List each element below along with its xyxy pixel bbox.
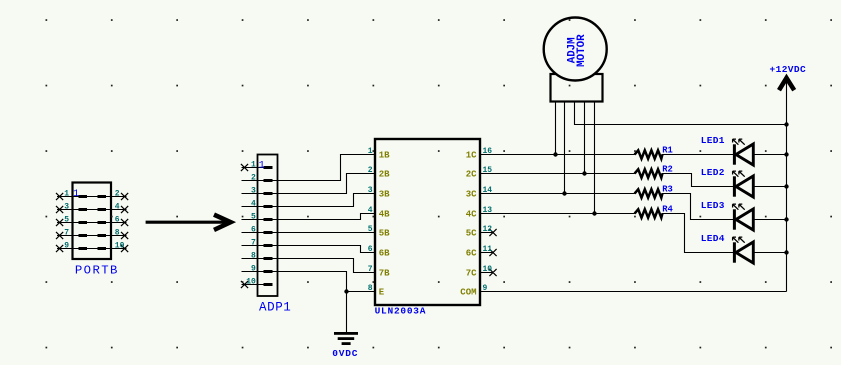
svg-text:1: 1 [259, 159, 265, 171]
svg-text:R4: R4 [662, 205, 673, 215]
svg-text:16: 16 [483, 147, 493, 156]
svg-text:4B: 4B [379, 210, 390, 220]
svg-text:7: 7 [368, 265, 373, 274]
svg-text:4: 4 [115, 202, 120, 211]
svg-text:0VDC: 0VDC [332, 348, 358, 359]
svg-text:3: 3 [64, 202, 69, 211]
svg-text:5C: 5C [466, 229, 477, 239]
svg-text:COM: COM [460, 288, 476, 298]
svg-text:2: 2 [251, 174, 256, 183]
svg-text:LED3: LED3 [701, 200, 725, 211]
svg-text:14: 14 [483, 186, 493, 195]
svg-text:13: 13 [483, 206, 493, 215]
svg-text:3C: 3C [466, 190, 477, 200]
svg-text:9: 9 [483, 284, 488, 293]
svg-text:4: 4 [251, 200, 256, 209]
svg-text:3: 3 [251, 187, 256, 196]
svg-text:ADP1: ADP1 [259, 301, 291, 315]
svg-text:9: 9 [251, 265, 256, 274]
svg-text:5: 5 [368, 225, 373, 234]
svg-text:E: E [379, 288, 385, 298]
svg-text:1B: 1B [379, 151, 390, 161]
svg-text:5: 5 [64, 215, 69, 224]
svg-text:1: 1 [73, 188, 79, 200]
svg-text:2: 2 [368, 166, 373, 175]
svg-text:5B: 5B [379, 229, 390, 239]
svg-text:7: 7 [64, 228, 69, 237]
svg-text:6: 6 [368, 245, 373, 254]
svg-text:2B: 2B [379, 170, 390, 180]
svg-text:MOTOR: MOTOR [576, 34, 588, 67]
svg-text:+12VDC: +12VDC [770, 64, 807, 75]
svg-text:10: 10 [483, 265, 493, 274]
svg-text:2C: 2C [466, 170, 477, 180]
svg-text:4C: 4C [466, 210, 477, 220]
svg-text:8: 8 [115, 228, 120, 237]
svg-text:15: 15 [483, 166, 493, 175]
svg-text:10: 10 [246, 278, 256, 287]
svg-text:9: 9 [64, 241, 69, 250]
svg-text:R3: R3 [662, 185, 673, 195]
svg-text:10: 10 [115, 241, 125, 250]
svg-text:8: 8 [368, 284, 373, 293]
svg-text:ULN2003A: ULN2003A [375, 306, 427, 317]
svg-text:5: 5 [251, 213, 256, 222]
svg-text:7: 7 [251, 239, 256, 248]
svg-text:12: 12 [483, 225, 493, 234]
svg-text:3B: 3B [379, 190, 390, 200]
svg-text:R1: R1 [662, 146, 673, 156]
svg-text:1: 1 [368, 147, 373, 156]
svg-text:11: 11 [483, 245, 493, 254]
svg-text:7B: 7B [379, 269, 390, 279]
svg-text:1C: 1C [466, 151, 477, 161]
svg-text:PORTB: PORTB [75, 264, 119, 278]
svg-text:2: 2 [115, 189, 120, 198]
svg-text:4: 4 [368, 206, 373, 215]
svg-text:6C: 6C [466, 249, 477, 259]
svg-text:6B: 6B [379, 249, 390, 259]
svg-text:LED1: LED1 [701, 135, 725, 146]
svg-text:8: 8 [251, 252, 256, 261]
svg-text:3: 3 [368, 186, 373, 195]
svg-text:LED2: LED2 [701, 167, 725, 178]
svg-text:7C: 7C [466, 269, 477, 279]
svg-text:LED4: LED4 [701, 233, 725, 244]
svg-text:R2: R2 [662, 165, 673, 175]
svg-text:1: 1 [251, 161, 256, 170]
svg-text:6: 6 [115, 215, 120, 224]
svg-text:6: 6 [251, 226, 256, 235]
svg-text:1: 1 [64, 189, 69, 198]
